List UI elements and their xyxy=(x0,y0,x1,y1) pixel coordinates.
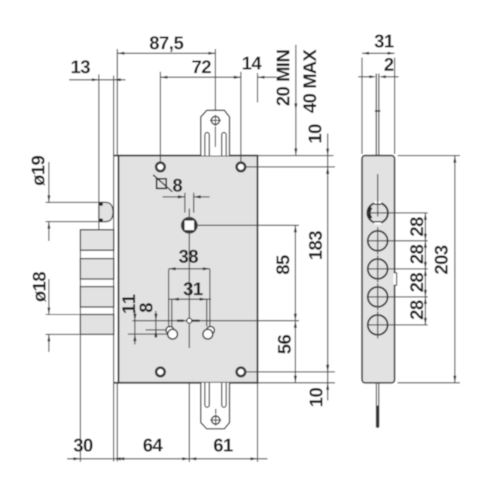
bottom plate slot left xyxy=(205,383,209,407)
dimension 8 (below centerline) xyxy=(155,311,157,338)
bottom plate centerline xyxy=(215,409,217,414)
dimension o18 (deadbolt) xyxy=(46,314,80,316)
dimension 203 xyxy=(398,155,460,157)
body screw holes xyxy=(156,163,165,172)
top plate screw hole xyxy=(211,116,219,124)
dimension 87,5 xyxy=(214,49,216,116)
dimension 31 (side) xyxy=(361,58,363,155)
deadbolt tip extension line xyxy=(79,250,81,462)
dimension 10 (top) xyxy=(327,134,329,167)
dimension 183 xyxy=(327,167,329,372)
side horizontal centerlines xyxy=(367,212,428,214)
bottom extension plate xyxy=(201,383,230,429)
dimension 13 xyxy=(69,79,126,81)
top plate centerline xyxy=(214,127,216,147)
dimension 20 MIN / 40 MAX xyxy=(295,45,297,156)
dimension 10 (bottom) xyxy=(327,372,329,401)
latch bolt xyxy=(99,202,113,221)
faceplate bottom edge stub xyxy=(114,382,119,384)
side vertical centerline stubs xyxy=(377,174,379,217)
top plate slot left xyxy=(205,133,209,156)
dimension o19 (latch) xyxy=(46,201,98,203)
dimension 85 xyxy=(294,225,296,320)
latch bevel mark top xyxy=(99,203,102,206)
dimension 30 / 64 / 61 xyxy=(67,458,268,460)
dimension 11 xyxy=(134,311,136,345)
side plate (side view) xyxy=(362,156,395,383)
faceplate top edge stub xyxy=(114,155,119,157)
key hole right (double-bit) xyxy=(207,326,215,334)
bottom extension lines xyxy=(188,383,190,462)
spindle centerline down xyxy=(188,232,190,349)
faceplate inner edge line xyxy=(113,76,115,462)
extension lines for 11/8 dims xyxy=(128,333,173,335)
side plate edge tab xyxy=(394,273,396,285)
adjusting rod (top) xyxy=(375,74,377,156)
dimension 14 xyxy=(257,73,259,102)
extension lines for 38/31 dims xyxy=(168,269,170,326)
bottom plate slot right xyxy=(222,383,226,407)
latch tip extension line xyxy=(98,74,100,202)
top plate slot right xyxy=(222,133,226,156)
dimension 72 xyxy=(159,72,161,162)
spindle hole (square 8) xyxy=(182,218,196,232)
latch circle (side view) xyxy=(368,203,388,223)
dimension 2 (rod) xyxy=(358,76,370,78)
faceplate front edge / extension line xyxy=(116,49,118,155)
latch bevel mark bottom xyxy=(99,219,102,222)
lock body (front view) xyxy=(119,156,258,383)
lower group centerline xyxy=(132,320,299,322)
key hole left (double-bit) xyxy=(166,326,174,334)
dimension 56 xyxy=(294,321,296,383)
extension lines right xyxy=(246,166,335,168)
dimension 38 xyxy=(169,268,210,270)
bottom plate screw hole xyxy=(212,416,220,424)
spindle centerline right xyxy=(197,224,299,226)
top extension plate xyxy=(201,110,230,155)
square symbol xyxy=(157,179,167,189)
dimension chain 28 xyxy=(424,213,426,325)
deadbolt blocks xyxy=(80,230,113,250)
adjusting rod (bottom) xyxy=(375,383,377,428)
spindle centerline up xyxy=(188,209,190,220)
bolt circles (side view) xyxy=(368,231,388,251)
dimension 31 (front) xyxy=(168,298,211,300)
dimension square 8 xyxy=(184,193,186,213)
